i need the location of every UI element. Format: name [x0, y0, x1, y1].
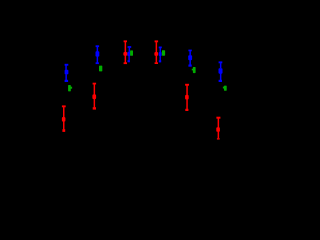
atom S2 (green, below N2) [99, 66, 102, 72]
atom N3 group (cluster C blue, x~129.3) [127, 46, 131, 62]
atom N5 group (cluster E, x~190.1) [188, 50, 192, 67]
wire bond N4 lower [160, 56, 161, 60]
bond cap N3 bottom [128, 60, 130, 62]
bond cap O5 top [185, 84, 189, 86]
bond cap O3 bottom [124, 62, 127, 64]
atom S3 (green) [130, 50, 133, 55]
bond cap N4 bottom [159, 60, 161, 62]
wire bond O3 lower [125, 56, 127, 63]
bond cap O6 top [216, 117, 220, 119]
wire bond N3 lower [128, 56, 129, 60]
bond cap N1 top [65, 64, 69, 66]
bond cap O3 top [124, 40, 127, 42]
bond cap O4 top [155, 40, 159, 42]
atom O6 group (cluster L, x~218.3) [216, 117, 220, 140]
bond cap O2 bottom [62, 129, 65, 132]
atom S1 (green, below N1) [68, 85, 72, 91]
atom label O1 [92, 94, 96, 99]
bond cap O2 top [62, 105, 66, 107]
atom label O4 [154, 52, 158, 56]
bond cap N5 top [188, 50, 191, 52]
wire bond O6 lower [218, 132, 220, 139]
wire bond O1 upper [94, 84, 96, 94]
bond cap N5 bottom [188, 65, 191, 67]
atom label N3 [127, 52, 130, 56]
atom O2 group (cluster I, x~63.7) [62, 105, 66, 131]
atom label N2 [96, 51, 100, 56]
bond cap O6 bottom [217, 138, 220, 140]
atom S6 (green, below-right of N6, bump on left) [223, 86, 227, 91]
bond cap N6 top [219, 61, 223, 63]
atom N6 group (cluster F, x~220.6) [219, 61, 223, 82]
wire bond O4 upper [156, 42, 158, 52]
wire bond N1 lower [65, 74, 67, 80]
wire bond N2 lower [97, 56, 99, 62]
wire bond N3 upper [129, 48, 131, 52]
atom label O3 [123, 52, 127, 56]
bond cap N2 top [96, 45, 100, 47]
bond cap N4 top [159, 47, 162, 49]
atom O5 group (cluster J, x~186.9) [185, 84, 189, 111]
wire bond O5 lower [186, 99, 188, 109]
wire bond O2 upper [63, 107, 65, 117]
wire bond O5 upper [186, 86, 188, 96]
atom O4 group (cluster D red, x~156.3) [154, 40, 158, 64]
molecule canvas [0, 0, 249, 164]
wire bond O3 upper [125, 42, 127, 52]
wire bond N5 lower [189, 60, 191, 65]
bond cap O4 bottom [155, 62, 158, 64]
bond cap N6 bottom [219, 80, 222, 82]
wire bond O6 upper [218, 119, 220, 128]
bond cap O5 bottom [185, 109, 188, 111]
atom label N4 [159, 52, 162, 56]
wire bond N1 upper [65, 66, 67, 71]
wire bond O4 lower [156, 56, 158, 63]
atom label O5 [185, 95, 189, 100]
bond cap N1 bottom [65, 80, 69, 82]
wire bond N4 upper [160, 48, 162, 52]
atom O1 group (cluster H, x~94.3) [92, 83, 96, 110]
wire bond N6 upper [220, 63, 222, 68]
atom N2 group (cluster B, x~97.3) [96, 45, 100, 64]
bond cap N2 bottom [96, 62, 99, 64]
bond cap O1 bottom [93, 107, 96, 109]
atom label N5 [188, 55, 192, 60]
bond cap O1 top [93, 83, 97, 85]
wire bond N2 upper [97, 47, 99, 52]
bond cap N3 top [128, 46, 132, 48]
atom S5 (green, below N5, bump on left) [192, 67, 196, 73]
atom label N1 [65, 70, 69, 75]
atom N4 group (cluster D blue, x~160.2) [159, 47, 162, 63]
atom label N6 [219, 68, 223, 74]
atom label O2 [62, 117, 66, 122]
atom S4 (green) [162, 50, 165, 55]
wire bond N6 lower [220, 73, 222, 80]
wire bond N5 upper [189, 51, 191, 55]
atom N1 group (cluster A, x~66.4) [65, 64, 69, 82]
atom label O6 [216, 127, 220, 132]
atom O3 group (cluster C red, x~125.3) [123, 40, 127, 64]
wire bond O2 lower [63, 121, 65, 129]
wire bond O1 lower [94, 99, 96, 107]
